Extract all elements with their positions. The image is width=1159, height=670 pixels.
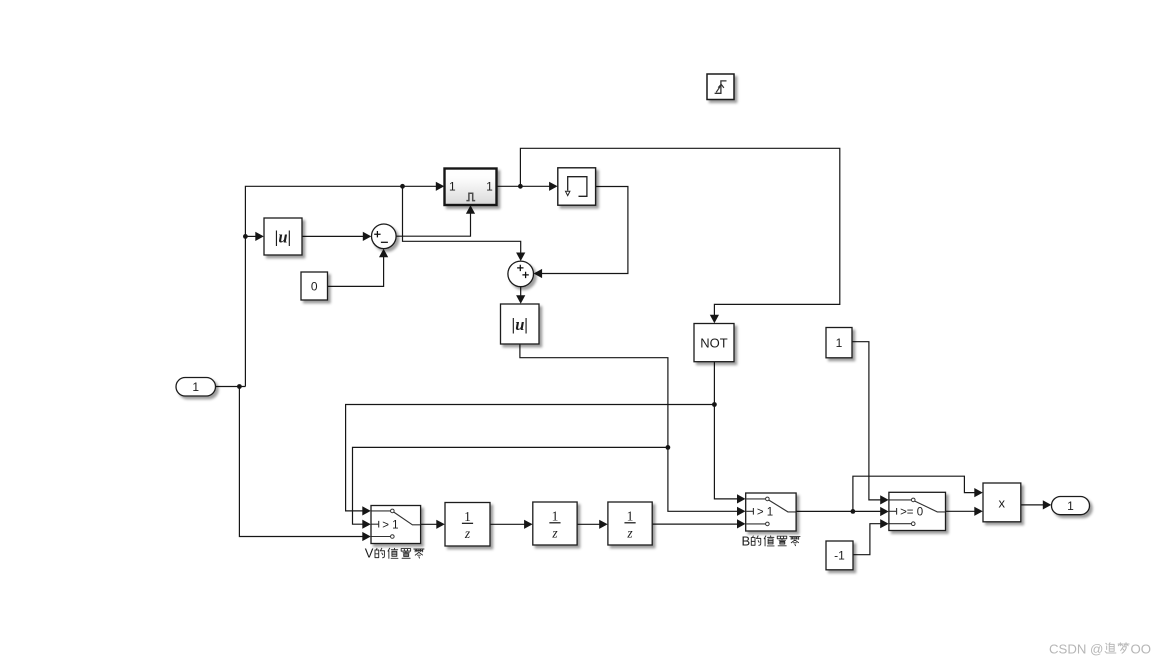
sum block Add1 [508, 261, 534, 287]
node B-switch output junction [851, 509, 856, 514]
svg-text:> 1: > 1 [382, 519, 398, 531]
svg-text:V: V [365, 545, 374, 560]
unit delay block Unit Delay2 1/z [608, 502, 652, 545]
constant block 0 [301, 272, 328, 300]
memory block [558, 168, 596, 205]
wire Constant 1 to Switch2 [852, 342, 881, 500]
node subsystem output junction [518, 184, 523, 189]
watermark CSDN @追梦00 [1049, 641, 1151, 656]
svg-text:-1: -1 [834, 549, 845, 563]
wire V-switch to Unit Delay [421, 523, 437, 525]
unit delay block Unit Delay1 1/z [533, 502, 577, 545]
switch block Switch B [746, 493, 796, 531]
svg-text:1: 1 [449, 180, 456, 194]
wire In1 down to V-switch data input [239, 387, 362, 537]
wire branch to Add1 top input [403, 186, 521, 253]
svg-text:|u|: |u| [275, 228, 291, 247]
wire branch to V-switch data input [346, 405, 715, 511]
wire In1 output [216, 386, 246, 388]
wire Constant 0 to Subtract [328, 257, 384, 287]
unit delay block Unit Delay 1/z [445, 503, 490, 547]
constant block 1 [826, 328, 852, 358]
abs block Abs1 |u| [501, 304, 540, 344]
triggered subsystem U1 [445, 169, 497, 206]
wire In1 up to subsystem In1 [245, 186, 436, 386]
svg-text:1: 1 [192, 380, 199, 394]
wire arrowhead into subsystem port 1 [436, 182, 445, 191]
wire Unit Delay2 to B-switch [652, 523, 737, 525]
svg-text:OO: OO [1131, 641, 1152, 656]
svg-text:|u|: |u| [512, 315, 528, 334]
svg-text:1: 1 [552, 508, 559, 523]
label B的值置零 [742, 534, 801, 549]
svg-text:B: B [742, 534, 751, 549]
output port Out1 [1052, 497, 1090, 515]
wire Abs1 to B-switch control [520, 344, 738, 511]
svg-text:0: 0 [311, 280, 318, 294]
wire Memory to Add1 [542, 187, 628, 274]
svg-text:z: z [551, 525, 558, 540]
trigger port block [707, 74, 734, 100]
wire Switch2 to Product [946, 510, 975, 512]
sum block Subtract [372, 224, 397, 249]
svg-text:NOT: NOT [700, 335, 728, 350]
wire subsystem output to NOT [520, 148, 839, 315]
wire Unit Delay to Unit Delay1 [490, 523, 524, 525]
product block x [983, 483, 1021, 522]
switch block Switch V [371, 506, 421, 544]
wire B-switch to Switch2 [796, 510, 881, 512]
node NOT output junction [712, 402, 717, 407]
constant block -1 [826, 541, 853, 570]
svg-text:z: z [464, 526, 471, 541]
svg-text:1: 1 [464, 509, 471, 524]
svg-text:z: z [626, 525, 633, 540]
wire Subtract to trigger port [396, 213, 470, 236]
wire Add1 to Abs1 [520, 287, 522, 296]
svg-text:>= 0: >= 0 [900, 507, 923, 519]
node junction to Abs [243, 234, 248, 239]
wire subsystem output to Memory [497, 185, 550, 187]
svg-text:1: 1 [627, 508, 634, 523]
node In1 branch junction [237, 384, 242, 389]
node junction to Add1 top branch [400, 184, 405, 189]
switch block Switch2 [889, 492, 946, 530]
svg-text:x: x [999, 495, 1006, 510]
svg-text:1: 1 [836, 336, 843, 350]
wire Product to Out1 [1021, 504, 1043, 506]
label V的值置零 [365, 545, 424, 560]
svg-text:1: 1 [486, 180, 493, 194]
wire branch to Product [853, 476, 975, 511]
logical operator block NOT [694, 324, 734, 362]
wire NOT to B-switch data input [714, 362, 737, 499]
wire Constant -1 to Switch2 [853, 524, 881, 555]
svg-text:> 1: > 1 [757, 507, 773, 519]
wire Abs to Subtract [302, 235, 363, 237]
wire branch into Abs |u| [245, 235, 255, 237]
svg-text:CSDN @: CSDN @ [1049, 641, 1103, 656]
node Abs1 output junction [666, 445, 671, 450]
wire Unit Delay1 to Unit Delay2 [577, 523, 600, 525]
svg-text:1: 1 [1067, 499, 1074, 513]
input port In1 [176, 378, 216, 397]
wire branch to V-switch control [353, 447, 668, 524]
abs block Abs |u| [264, 218, 302, 255]
